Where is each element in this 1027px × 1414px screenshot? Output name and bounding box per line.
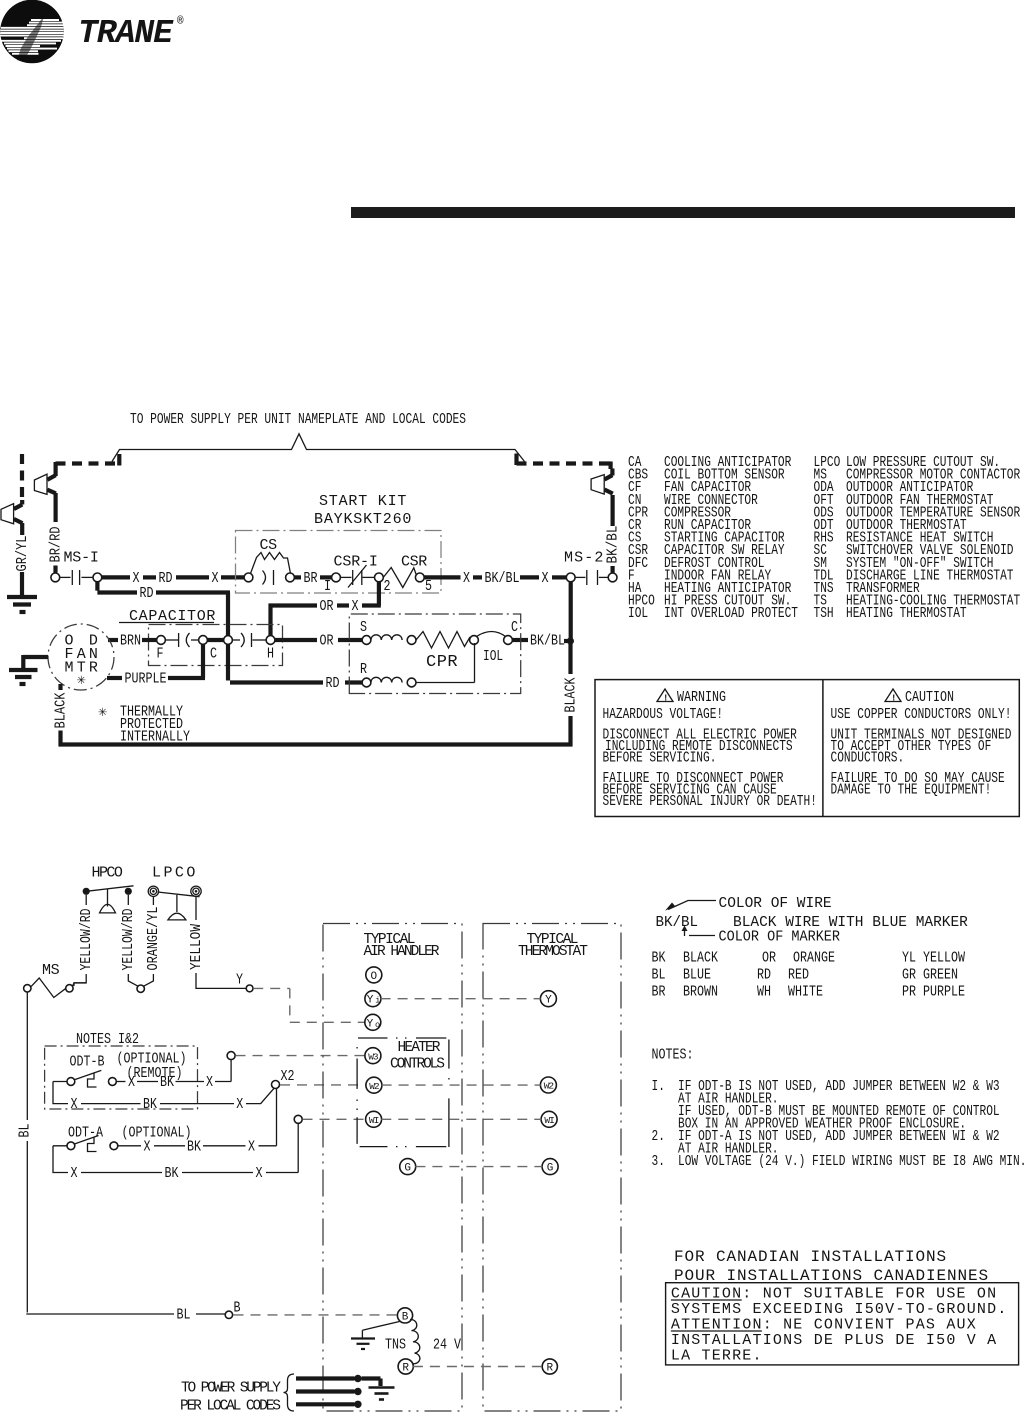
svg-text:3.: 3. (652, 1153, 665, 1170)
ground (power supply) (369, 1388, 395, 1400)
pressure switch LPCO (148, 886, 201, 920)
terminal Yi (365, 991, 381, 1007)
caution text block (831, 706, 1012, 799)
terminal W3 (365, 1048, 381, 1064)
wire MS-1 to CS with X RD X labels (102, 571, 245, 587)
svg-text:BR: BR (652, 985, 666, 1001)
brace power supply (284, 1374, 295, 1411)
relay coil CSR (383, 554, 432, 596)
START KIT label (314, 493, 411, 528)
svg-text:C: C (210, 647, 217, 663)
ODT-B labels (70, 1052, 187, 1083)
node 2 junction circle (375, 573, 384, 582)
wire connector CN (GR/YL) (1, 500, 23, 535)
svg-text:WHITE: WHITE (788, 985, 823, 1001)
compressor CPR label (426, 653, 458, 672)
svg-text:PURPLE: PURPLE (923, 985, 965, 1001)
motor ground stub (23, 655, 48, 668)
power supply label (130, 412, 466, 428)
svg-text:BK: BK (652, 951, 666, 967)
junction RD at capacitor (207, 636, 232, 645)
capacitor dash-dot box (149, 625, 283, 666)
compressor terminal C (504, 620, 519, 644)
svg-text:X: X (206, 1075, 213, 1091)
svg-text:YELLOW: YELLOW (923, 951, 965, 967)
transformer TNS winding (385, 1319, 461, 1363)
svg-text:HEATING THERMOSTAT: HEATING THERMOSTAT (846, 605, 967, 622)
ground (GR/YL) (7, 597, 37, 612)
svg-text:S: S (360, 620, 367, 636)
outdoor thermostat ODT-A contact (67, 1136, 118, 1152)
svg-text:ORANGE: ORANGE (793, 951, 835, 967)
svg-text:24 V: 24 V (433, 1338, 461, 1354)
svg-text:FOR CANADIAN INSTALLATIONS: FOR CANADIAN INSTALLATIONS (674, 1248, 947, 1266)
svg-text:Y: Y (367, 995, 374, 1007)
node HPCO-LPCO junction (137, 985, 144, 992)
svg-text:DAMAGE TO THE EQUIPMENT!: DAMAGE TO THE EQUIPMENT! (831, 782, 992, 799)
svg-text:(OPTIONAL): (OPTIONAL) (122, 1126, 192, 1142)
svg-text:H: H (267, 647, 274, 663)
terminal R air handler (398, 1359, 413, 1375)
wire GR/YL to ground (15, 536, 31, 596)
dashed wire X2 to W2 (280, 1084, 366, 1086)
junction dot BK/BL node (567, 637, 574, 644)
power supply line 2 (296, 1388, 362, 1395)
svg-text:X2: X2 (281, 1069, 295, 1085)
thermally protected note (98, 704, 190, 746)
IOL bimetal arc (477, 632, 506, 666)
svg-text:YELLOW: YELLOW (189, 924, 205, 970)
svg-text:THERMOSTAT: THERMOSTAT (518, 944, 588, 960)
svg-text:X: X (71, 1097, 78, 1113)
svg-text:G: G (404, 1163, 411, 1175)
svg-text:I.: I. (652, 1078, 665, 1095)
wire OR-X from node 2 down to H (269, 582, 381, 636)
thermostat title (518, 932, 588, 960)
svg-text:X: X (144, 1139, 151, 1155)
svg-text:RED: RED (788, 968, 809, 984)
wire BLACK motor bottom to bus (53, 684, 69, 746)
transformer primary lead to ground (362, 1322, 399, 1339)
svg-text:TO POWER SUPPLY: TO POWER SUPPLY (181, 1381, 281, 1397)
START KIT dash-dot box (236, 531, 442, 594)
svg-text:BLACK: BLACK (563, 677, 579, 712)
dashed wire Y to Yo (253, 988, 365, 1022)
svg-text:W3: W3 (368, 1051, 379, 1062)
wire ODT-A lower row (53, 1123, 298, 1182)
run capacitor terminal C (199, 636, 218, 663)
svg-text:BK: BK (160, 1075, 174, 1091)
wire BK/BL compressor C to junction (512, 633, 568, 649)
svg-text:WH: WH (757, 985, 771, 1001)
notes heading (652, 1048, 694, 1064)
wire YELLOW (LPCO right) (189, 896, 246, 988)
wire YELLOW/RD (HPCO right) (121, 895, 138, 986)
wire BL to B splice (177, 1307, 226, 1323)
svg-text:I: I (324, 579, 331, 595)
svg-text:BRN: BRN (120, 633, 141, 649)
overload heater resistor (416, 632, 478, 649)
svg-text:RD: RD (757, 968, 771, 984)
wire RD branch from MS-1 (97, 582, 230, 636)
svg-text:BK/BL: BK/BL (656, 915, 699, 931)
svg-text:HPCO: HPCO (92, 865, 123, 882)
svg-text:GR: GR (902, 968, 916, 984)
svg-text:B: B (402, 1311, 409, 1323)
thermostat dash-dot box (483, 924, 621, 1412)
svg-text:o: o (375, 1020, 380, 1030)
run winding coil (371, 677, 416, 687)
wire RD vertical through capacitor to compressor R (228, 644, 362, 692)
svg-text:R: R (360, 662, 367, 678)
svg-text:✳: ✳ (77, 672, 86, 689)
thermostat terminal R (542, 1359, 557, 1375)
svg-text:YL: YL (902, 951, 916, 967)
svg-text:OR: OR (320, 599, 334, 615)
terminal O (366, 967, 382, 983)
terminal W2 air handler (366, 1077, 382, 1093)
svg-text:X: X (133, 571, 140, 587)
svg-text:2: 2 (384, 579, 391, 595)
NOTES 1&2 label (76, 1032, 139, 1048)
TRANE wordmark (78, 15, 184, 52)
MS label (42, 962, 60, 979)
svg-text:Y: Y (545, 995, 552, 1007)
wire BK/BL up to right connector (605, 495, 621, 573)
svg-text:IOL: IOL (483, 648, 503, 665)
dashed wire Yi to Y (381, 998, 541, 1000)
svg-text:BL: BL (177, 1307, 191, 1323)
svg-text:LA TERRE.: LA TERRE. (671, 1348, 763, 1365)
svg-text:NOTES:: NOTES: (652, 1048, 694, 1064)
svg-text:B: B (234, 1301, 241, 1317)
svg-text:BK: BK (143, 1097, 157, 1113)
svg-text:BL: BL (17, 1124, 33, 1138)
svg-text:RD: RD (140, 586, 154, 602)
power wire dashed right (517, 454, 611, 470)
svg-text:INSTALLATIONS DE PLUS DE I50 V: INSTALLATIONS DE PLUS DE I50 V A (671, 1332, 997, 1349)
start winding coil (371, 635, 416, 645)
wire run winding to IOL (416, 643, 475, 683)
run capacitor terminal F (157, 636, 166, 663)
svg-text:SYSTEMS EXCEEDING I50V-TO-GROU: SYSTEMS EXCEEDING I50V-TO-GROUND. (671, 1301, 1008, 1318)
svg-text:X: X (256, 1166, 263, 1182)
ground (motor) (9, 670, 38, 684)
GR/YL dashed lead (20, 454, 24, 500)
HPCO label (92, 865, 123, 882)
heater controls bracket (357, 1038, 449, 1147)
power wire dashed left (56, 454, 122, 476)
svg-text:CONTROLS: CONTROLS (390, 1057, 445, 1073)
svg-text:X: X (212, 571, 219, 587)
header black bar (351, 207, 1015, 218)
thermostat terminal W2 (540, 1077, 556, 1093)
svg-text:IOL: IOL (628, 605, 648, 622)
dashed wire B to air handler (234, 1314, 398, 1316)
dashed wire W2 to W2 (382, 1084, 541, 1086)
dashed wire ODT-A node to W1 (303, 1118, 367, 1120)
wire PURPLE motor to C (107, 644, 205, 687)
caution triangle icon (885, 689, 901, 704)
OD fan motor (48, 624, 114, 690)
contactor contact MS-1 (51, 550, 102, 586)
svg-text:W2: W2 (369, 1081, 380, 1092)
air handler title (364, 932, 440, 960)
svg-text:YELLOW/RD: YELLOW/RD (121, 909, 137, 971)
svg-text:BR/RD: BR/RD (48, 527, 64, 563)
svg-text:!: ! (891, 694, 896, 704)
svg-text:X: X (542, 571, 549, 587)
svg-text:BK: BK (165, 1166, 179, 1182)
wire ORANGE/YL (LPCO left) (144, 896, 163, 986)
svg-text:HEATER: HEATER (398, 1040, 441, 1056)
svg-text:ODT-B: ODT-B (70, 1055, 105, 1071)
svg-text:Y: Y (236, 973, 243, 989)
svg-text:ORANGE/YL: ORANGE/YL (146, 907, 162, 971)
svg-text:RD: RD (326, 676, 340, 692)
svg-text:GR/YL: GR/YL (15, 536, 31, 572)
terminal Yo (365, 1014, 381, 1030)
LPCO label (152, 865, 195, 882)
svg-text:X: X (236, 1097, 243, 1113)
terminal B air handler (397, 1308, 412, 1324)
node X2 (272, 1069, 295, 1089)
svg-text:CS: CS (260, 537, 278, 554)
svg-text:X: X (463, 571, 470, 587)
svg-text:BLACK: BLACK (53, 692, 69, 728)
svg-text:AIR HANDLER: AIR HANDLER (364, 944, 440, 960)
canadian installations heading (674, 1248, 989, 1285)
svg-text:OR: OR (320, 633, 334, 649)
node ODT-B to W3 (227, 1052, 235, 1060)
svg-text:X: X (248, 1139, 255, 1155)
contactor coil MS (24, 978, 87, 998)
svg-text:WI: WI (544, 1115, 554, 1126)
svg-text:USE COPPER CONDUCTORS ONLY!: USE COPPER CONDUCTORS ONLY! (831, 706, 1012, 723)
wire connector CN (BR/RD) (34, 474, 56, 494)
Y splice label (236, 973, 243, 989)
svg-text:X: X (71, 1166, 78, 1182)
svg-text:PR: PR (902, 985, 916, 1001)
svg-text:LOW VOLTAGE (24 V.) FIELD WIRI: LOW VOLTAGE (24 V.) FIELD WIRING MUST BE… (678, 1153, 1026, 1170)
TRANE logo mark (0, 0, 64, 63)
svg-text:BLACK: BLACK (683, 951, 718, 967)
svg-text:RD: RD (159, 571, 173, 587)
svg-text:INT OVERLOAD PROTECT: INT OVERLOAD PROTECT (664, 605, 798, 622)
terminal W1 air handler (366, 1111, 382, 1127)
svg-text:HAZARDOUS VOLTAGE!: HAZARDOUS VOLTAGE! (603, 706, 724, 723)
svg-text:BK: BK (187, 1139, 201, 1155)
svg-text:CAUTION: CAUTION (905, 690, 954, 706)
svg-text:2.: 2. (652, 1128, 665, 1145)
svg-text:W2: W2 (544, 1081, 555, 1092)
svg-text:BAYKSKT260: BAYKSKT260 (314, 511, 411, 528)
svg-text:i: i (375, 996, 380, 1006)
wire BL left riser (17, 992, 174, 1314)
contactor contact MS-2 (564, 550, 617, 586)
starting capacitor CS (244, 537, 294, 585)
svg-text:C: C (511, 620, 518, 636)
svg-text:SEVERE PERSONAL INJURY OR DEAT: SEVERE PERSONAL INJURY OR DEATH! (603, 793, 817, 810)
svg-text:®: ® (177, 16, 184, 28)
dashed wire ODT-B node to W3 (236, 1055, 366, 1057)
svg-text:BR: BR (304, 571, 318, 587)
power supply label bottom (180, 1381, 281, 1414)
canadian caution text (671, 1286, 1008, 1365)
air handler dash-dot box (323, 924, 462, 1412)
warning header (677, 690, 726, 706)
power supply line 3 (296, 1401, 362, 1408)
svg-text:OR: OR (762, 951, 776, 967)
run capacitor terminal H (266, 636, 275, 663)
svg-text:WI: WI (369, 1115, 379, 1126)
svg-text:GREEN: GREEN (923, 968, 958, 984)
thermostat terminal Y (540, 991, 556, 1007)
svg-text:G: G (547, 1163, 554, 1175)
terminal G air handler (400, 1159, 416, 1175)
svg-text:LPCO: LPCO (152, 865, 195, 882)
svg-text:X: X (128, 1075, 135, 1091)
ODT-B dash-dot box (45, 1046, 198, 1109)
svg-text:BK/BL: BK/BL (485, 571, 520, 587)
svg-text:START KIT: START KIT (319, 493, 406, 510)
outdoor thermostat ODT-B contact (67, 1070, 116, 1087)
svg-text:BK/BL: BK/BL (605, 526, 621, 564)
svg-text:CSR-I: CSR-I (334, 554, 378, 571)
wire BLACK bottom bus (59, 742, 573, 746)
svg-text:R: R (546, 1363, 553, 1375)
wire CSR to MS-2 with X BK/BL X labels (424, 571, 566, 587)
svg-text:CONDUCTORS.: CONDUCTORS. (831, 750, 905, 767)
power supply line 1 (296, 1375, 381, 1386)
svg-text:BK/BL: BK/BL (530, 633, 565, 649)
compressor terminal S (360, 620, 371, 644)
warning triangle icon (657, 689, 673, 704)
dashed wire W1 to W1 (381, 1118, 541, 1120)
wire BR/RD down to MS-1 (48, 493, 64, 573)
caution header (905, 690, 954, 706)
wire ODT-B upper row (116, 1060, 231, 1092)
svg-text:BEFORE SERVICING.: BEFORE SERVICING. (603, 750, 717, 767)
relay contact CSR-1 (NC) (324, 554, 391, 596)
wire CS to CSR-1 with BR label (294, 571, 331, 587)
svg-text:MS-I: MS-I (64, 550, 99, 567)
thermostat terminal W1 (541, 1111, 557, 1127)
ODT-A labels (68, 1126, 192, 1142)
svg-text:F: F (157, 647, 164, 663)
wire ODT-B lower row (53, 1082, 274, 1114)
svg-text:Y: Y (367, 1018, 374, 1030)
node B splice (225, 1301, 241, 1319)
svg-text:WARNING: WARNING (677, 690, 726, 706)
brace under power supply label (112, 434, 525, 462)
heater controls label (390, 1040, 445, 1073)
svg-text:COLOR OF WIRE: COLOR OF WIRE (719, 896, 832, 912)
compressor terminal R (360, 662, 371, 687)
wire BRN motor to F (108, 633, 157, 649)
notes text (652, 1078, 1027, 1170)
CAPACITOR label (119, 608, 215, 625)
node ODT-A to W1 (294, 1115, 302, 1123)
svg-text:BROWN: BROWN (683, 985, 718, 1001)
wire BLACK right riser (563, 640, 579, 746)
capacitor plates F-C (165, 633, 198, 647)
svg-text:ODT-A: ODT-A (68, 1126, 103, 1142)
ground (transformer) (351, 1339, 375, 1350)
legend abbreviation table (628, 454, 1020, 622)
dashed wire R to R (413, 1366, 543, 1368)
color of wire legend (656, 896, 969, 946)
svg-text:MS-2: MS-2 (564, 550, 603, 567)
svg-text:NOTES I&2: NOTES I&2 (76, 1032, 139, 1048)
wire MS-2 down to BK/BL junction (569, 582, 573, 641)
node Y splice (246, 985, 253, 992)
svg-text:TNS: TNS (385, 1338, 406, 1354)
svg-text:CPR: CPR (426, 653, 458, 672)
wire OR from H to compressor S (275, 633, 362, 649)
svg-text:MS: MS (42, 962, 60, 979)
color table (652, 951, 966, 1001)
svg-text:X: X (352, 599, 359, 615)
wire connector CN (right) (591, 469, 613, 495)
svg-text:R: R (402, 1363, 409, 1375)
svg-text:5: 5 (425, 579, 432, 595)
svg-text:!: ! (663, 694, 668, 704)
pressure switch HPCO (83, 886, 134, 913)
svg-text:YELLOW/RD: YELLOW/RD (79, 909, 95, 971)
capacitor plates C-H (232, 633, 266, 647)
svg-text:PER LOCAL CODES: PER LOCAL CODES (180, 1399, 281, 1414)
warning caution box (595, 680, 1019, 817)
svg-text:TRANE: TRANE (78, 15, 174, 52)
svg-text:BL: BL (652, 968, 666, 984)
compressor CPR dash-dot box (349, 614, 520, 694)
wire YELLOW/RD (HPCO left) (74, 895, 95, 986)
dashed wire G to G (415, 1166, 542, 1168)
svg-text:COLOR OF MARKER: COLOR OF MARKER (719, 930, 841, 946)
thermostat terminal G (542, 1159, 558, 1175)
svg-text:PURPLE: PURPLE (125, 671, 167, 687)
svg-text:BLUE: BLUE (683, 968, 711, 984)
warning text block (603, 706, 817, 810)
svg-text:TSH: TSH (814, 605, 834, 622)
svg-text:O: O (370, 971, 377, 983)
canadian caution box (666, 1283, 1019, 1365)
wire ODT-A upper row (118, 1088, 277, 1155)
svg-text:TO POWER SUPPLY PER UNIT NAMEP: TO POWER SUPPLY PER UNIT NAMEPLATE AND L… (130, 412, 466, 428)
svg-text:✳: ✳ (98, 704, 107, 721)
